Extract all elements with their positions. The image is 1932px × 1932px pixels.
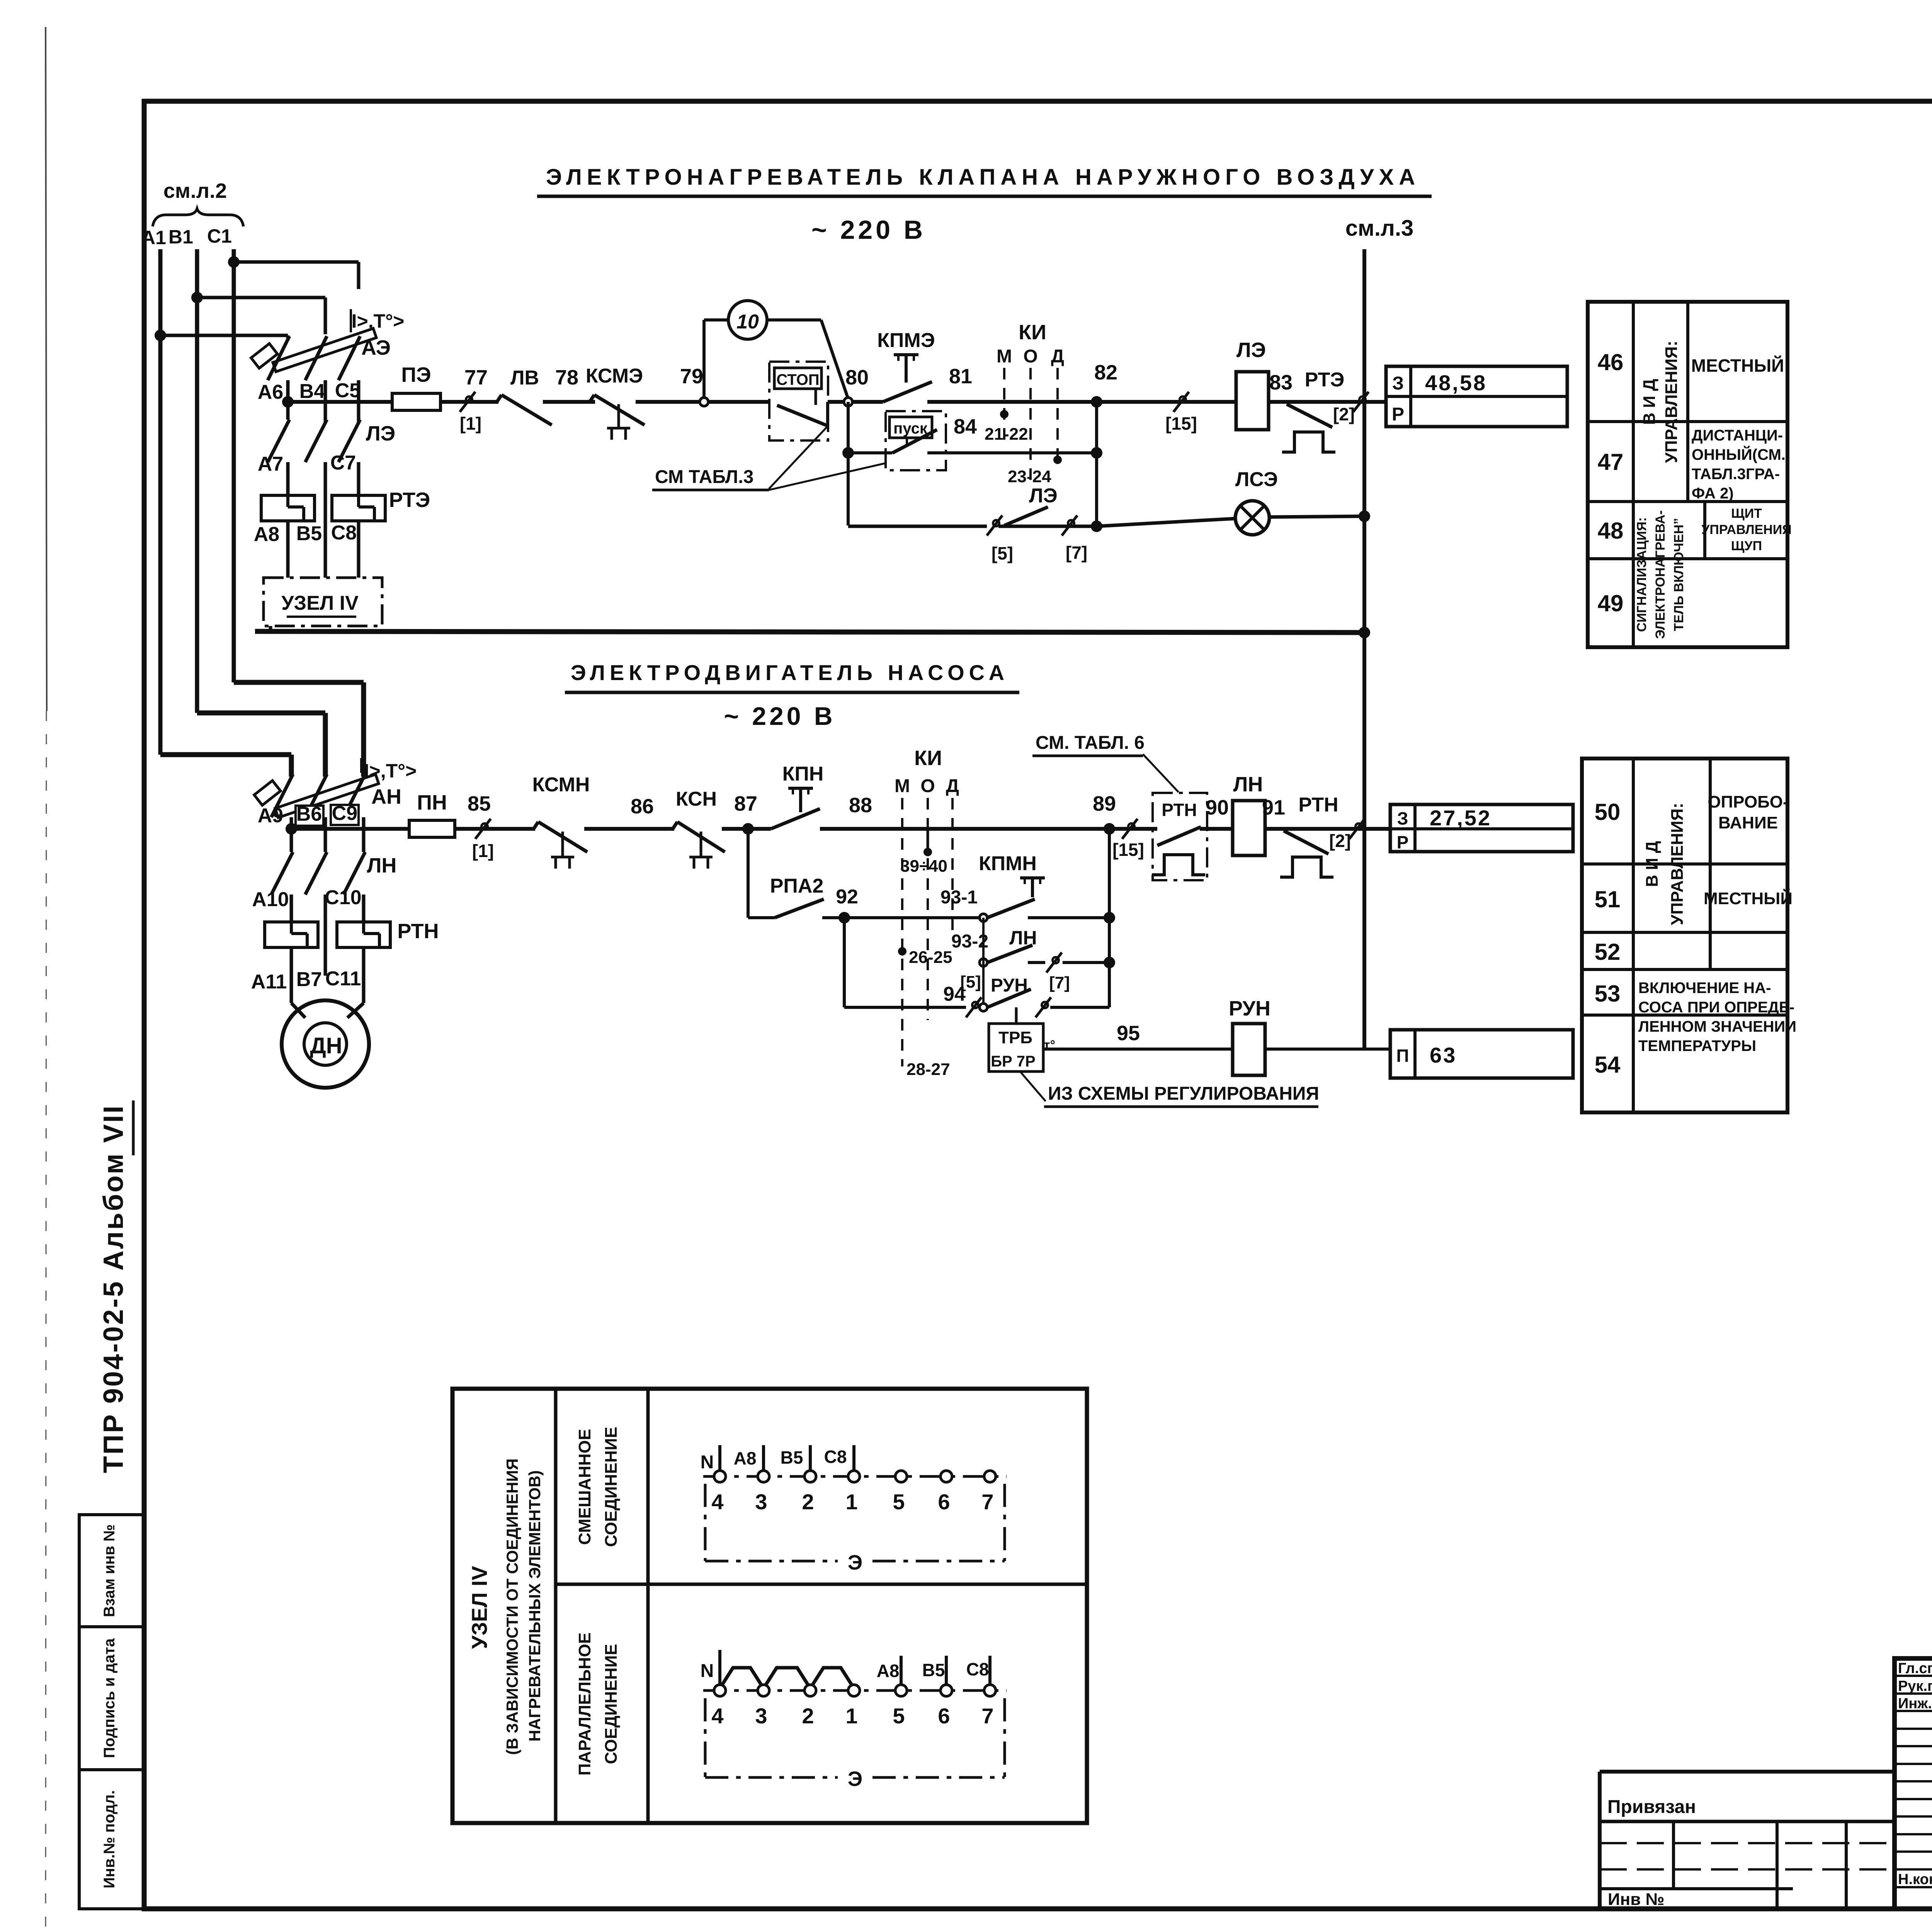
contact КПН (button) (771, 763, 823, 829)
svg-text:ЛЕННОМ ЗНАЧЕНИИ: ЛЕННОМ ЗНАЧЕНИИ (1638, 1018, 1796, 1035)
svg-text:А11: А11 (251, 971, 287, 993)
svg-text:~ 220 В: ~ 220 В (724, 702, 836, 730)
label см.л.3 (1345, 216, 1414, 241)
svg-text:26-25: 26-25 (909, 948, 952, 967)
svg-text:С8: С8 (966, 1659, 989, 1679)
svg-text:ЭЛЕКТРОНАГРЕВА-: ЭЛЕКТРОНАГРЕВА- (1653, 510, 1668, 639)
svg-text:[7]: [7] (1049, 973, 1070, 992)
circuit breaker АЭ (3-pole automatic) (251, 309, 405, 380)
terminal [5] (987, 515, 1013, 563)
svg-text:С1: С1 (207, 225, 232, 247)
svg-text:49: 49 (1598, 590, 1624, 616)
svg-text:С10: С10 (325, 886, 361, 909)
svg-text:47: 47 (1598, 449, 1624, 475)
svg-text:3: 3 (755, 1490, 767, 1514)
contact РУН aux branch 94 (844, 973, 1109, 1024)
svg-text:46: 46 (1598, 349, 1624, 375)
title: ЭЛЕКТРОНАГРЕВАТЕЛЬ КЛАПАНА НАРУЖНОГО ВОЗДУХА (537, 165, 1432, 196)
margin cell: Подпись и дата (79, 1627, 144, 1770)
svg-text:Р: Р (1392, 404, 1404, 425)
svg-text:5: 5 (893, 1490, 905, 1514)
thermal contact РТЭ on main line (1282, 369, 1344, 452)
terminal [7] (1062, 515, 1087, 563)
svg-text:ЛВ: ЛВ (510, 367, 539, 389)
svg-text:З: З (1397, 808, 1408, 828)
label см.л.2 with brace (153, 179, 243, 226)
svg-text:10: 10 (736, 311, 759, 333)
margin text ТПР 904-02-5 Альбом VII (98, 1100, 133, 1473)
contact ЛЭ aux (1004, 485, 1058, 526)
junction В1-heater (191, 292, 203, 303)
table rows 46-49 (1588, 302, 1792, 647)
breaker pole stubs (288, 380, 359, 422)
attachment box Привязан (1600, 1772, 1895, 1909)
switch КИ motor labels (895, 747, 959, 796)
thermal element РТН phase С (337, 920, 439, 1003)
svg-text:см.л.3: см.л.3 (1345, 216, 1414, 241)
wire labels А7 С7 (258, 452, 356, 475)
svg-text:21-22: 21-22 (985, 425, 1028, 444)
svg-text:79: 79 (680, 365, 703, 388)
svg-text:ТРБ: ТРБ (998, 1028, 1032, 1047)
svg-text:Д: Д (946, 776, 959, 796)
svg-text:ЛСЭ: ЛСЭ (1235, 468, 1278, 491)
terminal [15] motor (1112, 819, 1144, 860)
svg-text:А10: А10 (252, 888, 289, 911)
svg-text:БР 7Р: БР 7Р (991, 1053, 1035, 1070)
junction А6 / main line (282, 396, 294, 408)
svg-text:КПН: КПН (782, 763, 824, 785)
svg-text:Р: Р (1397, 832, 1409, 852)
svg-text:48: 48 (1598, 518, 1624, 544)
table rows 50-54 (1582, 759, 1796, 1112)
junction С1-heater (228, 256, 240, 268)
signal lamp ЛСЭ (1235, 468, 1278, 535)
junction А9 / motor line (286, 823, 297, 835)
svg-text:ЛЭ: ЛЭ (1029, 485, 1057, 507)
svg-text:А7: А7 (258, 453, 283, 475)
dashed line О (1029, 368, 1032, 486)
svg-text:81: 81 (949, 365, 972, 388)
svg-text:РПА2: РПА2 (770, 875, 824, 897)
svg-text:В5: В5 (781, 1447, 803, 1468)
dashed line О motor (927, 798, 929, 1020)
svg-text:Инв.№ подл.: Инв.№ подл. (101, 1790, 118, 1888)
wire С1 step to motor breaker (234, 682, 364, 777)
svg-text:Н.контр.: Н.контр. (1898, 1871, 1932, 1888)
svg-text:(В ЗАВИСИМОСТИ ОТ СОЕДИНЕНИЯ: (В ЗАВИСИМОСТИ ОТ СОЕДИНЕНИЯ (503, 1458, 521, 1755)
svg-text:52: 52 (1595, 939, 1621, 965)
svg-text:63: 63 (1430, 1043, 1457, 1067)
svg-text:В6: В6 (296, 803, 322, 825)
scan edge line (46, 27, 47, 1928)
svg-text:28-27: 28-27 (906, 1060, 950, 1079)
svg-text:В4: В4 (299, 380, 325, 403)
svg-text:[5]: [5] (992, 543, 1013, 563)
svg-text:7: 7 (981, 1490, 993, 1514)
svg-text:КИ: КИ (914, 747, 942, 770)
contact пуск blade (848, 415, 1097, 453)
svg-text:94: 94 (943, 983, 966, 1005)
wire neutral rail (255, 626, 1364, 633)
svg-text:ЛН: ЛН (367, 854, 397, 877)
relay coil ЛЭ (1236, 338, 1269, 430)
svg-text:А9: А9 (258, 804, 283, 827)
svg-text:ПАРАЛЛЕЛЬНОЕ: ПАРАЛЛЕЛЬНОЕ (575, 1633, 594, 1776)
fuse ПЭ (392, 363, 440, 410)
svg-text:ЛН: ЛН (1009, 927, 1037, 949)
note СМ ТАБЛ.3 with leaders (652, 427, 887, 490)
svg-text:КСМЭ: КСМЭ (586, 365, 643, 387)
svg-text:Инж.: Инж. (1898, 1696, 1932, 1712)
svg-text:СОЕДИНЕНИЕ: СОЕДИНЕНИЕ (602, 1427, 621, 1547)
svg-text:пуск: пуск (893, 420, 928, 437)
dashed line М (1003, 368, 1005, 448)
svg-text:[15]: [15] (1165, 413, 1197, 434)
КИ contact 28-27 (906, 1060, 950, 1079)
svg-text:89: 89 (1093, 792, 1116, 815)
svg-text:ЛЭ: ЛЭ (1236, 338, 1266, 362)
svg-text:39÷40: 39÷40 (900, 857, 947, 876)
svg-text:А8: А8 (734, 1448, 757, 1468)
svg-text:В И Д: В И Д (1640, 379, 1659, 425)
svg-text:З: З (1392, 373, 1404, 394)
terminal [15] heater (1165, 392, 1197, 434)
svg-text:7: 7 (981, 1704, 993, 1728)
svg-text:53: 53 (1595, 981, 1621, 1007)
svg-text:82: 82 (1094, 361, 1117, 384)
note ИЗ СХЕМЫ РЕГУЛИРОВАНИЯ (1020, 1071, 1319, 1107)
svg-text:М: М (997, 346, 1012, 367)
thermal element РТЭ phase С (332, 488, 430, 578)
wire labels А11 В7 С11 (251, 968, 361, 993)
svg-text:А8: А8 (877, 1661, 900, 1681)
svg-text:О: О (920, 776, 935, 796)
svg-text:4: 4 (711, 1490, 723, 1514)
wire labels А10 С10 (252, 886, 361, 911)
svg-text:6: 6 (938, 1704, 950, 1728)
svg-text:ПЭ: ПЭ (401, 363, 431, 386)
svg-text:М: М (895, 776, 910, 796)
svg-text:АЭ: АЭ (361, 336, 391, 359)
svg-text:РТЭ: РТЭ (389, 488, 430, 512)
contact РПА2 branch (748, 875, 983, 918)
temperature relay ТРБ (989, 1022, 1233, 1071)
svg-text:ТЕЛЬ ВКЛЮЧЕН”: ТЕЛЬ ВКЛЮЧЕН” (1672, 518, 1686, 631)
svg-text:КСН: КСН (676, 788, 717, 810)
svg-text:ОПРОБО-: ОПРОБО- (1708, 793, 1788, 811)
junction 92 (836, 886, 858, 923)
junction А1-heater (155, 330, 166, 341)
label 88 (849, 794, 872, 817)
node label В1 (168, 226, 193, 248)
svg-text:54: 54 (1595, 1052, 1621, 1078)
svg-text:2: 2 (802, 1490, 814, 1514)
contact КСМЭ (586, 365, 645, 440)
relay coil ЛН (1233, 773, 1265, 855)
wire balloon to node 80 (767, 320, 848, 399)
relay coil РУН (1229, 997, 1390, 1075)
terminal 85 [1] (468, 792, 494, 861)
wire С1 to breaker АЭ (234, 262, 359, 289)
terminal 77 [1] (460, 366, 488, 434)
svg-text:90: 90 (1206, 796, 1229, 819)
svg-text:СМЕШАННОЕ: СМЕШАННОЕ (575, 1429, 594, 1545)
svg-text:5: 5 (893, 1704, 905, 1728)
breaker АН pole stubs (291, 817, 364, 852)
wire node80 down-branch (842, 402, 854, 526)
svg-text:78: 78 (555, 366, 578, 389)
svg-text:27,52: 27,52 (1430, 806, 1492, 830)
wire motor main line (291, 827, 1390, 831)
label ~220В heater (811, 215, 926, 245)
svg-text:С11: С11 (325, 968, 361, 990)
dashed line Д (1056, 368, 1059, 458)
svg-text:88: 88 (849, 794, 872, 817)
svg-text:ТЕМПЕРАТУРЫ: ТЕМПЕРАТУРЫ (1638, 1037, 1756, 1054)
КИ contact 26-25 (898, 947, 952, 967)
svg-text:[1]: [1] (472, 841, 494, 861)
svg-text:[1]: [1] (460, 413, 481, 434)
КИ contact 21-22 (985, 410, 1028, 444)
svg-text:93-1: 93-1 (940, 887, 978, 908)
svg-text:87: 87 (734, 792, 757, 815)
contact КПМН (button) (940, 852, 1115, 923)
label 90 (1206, 796, 1229, 819)
wire balloon number 10 (728, 301, 767, 339)
svg-text:Привязан: Привязан (1607, 1797, 1696, 1817)
wire junction92 down to РУН branch (843, 918, 846, 1007)
svg-text:РУН: РУН (1229, 997, 1270, 1020)
svg-text:ВКЛЮЧЕНИЕ НА-: ВКЛЮЧЕНИЕ НА- (1638, 980, 1771, 997)
svg-text:1: 1 (845, 1704, 857, 1728)
wire balloon riser (704, 320, 728, 398)
svg-text:УПРАВЛЕНИЯ: УПРАВЛЕНИЯ (1701, 522, 1792, 537)
table УЗЕЛ IV frame (452, 1389, 1087, 1823)
contact ЛН aux 93-2 (951, 918, 1115, 1007)
margin cell: Инв.№ подл. (79, 1770, 144, 1909)
svg-text:С8: С8 (331, 522, 357, 544)
svg-text:РТН: РТН (397, 920, 439, 943)
svg-text:УПРАВЛЕНИЯ:: УПРАВЛЕНИЯ: (1668, 803, 1687, 925)
svg-text:ПН: ПН (417, 791, 447, 814)
svg-text:91: 91 (1262, 796, 1285, 819)
svg-text:КИ: КИ (1019, 321, 1046, 344)
svg-text:СИГНАЛИЗАЦИЯ:: СИГНАЛИЗАЦИЯ: (1634, 517, 1649, 632)
svg-text:N: N (701, 1661, 714, 1681)
svg-text:НАГРЕВАТЕЛЬНЫХ ЭЛЕМЕНТОВ): НАГРЕВАТЕЛЬНЫХ ЭЛЕМЕНТОВ) (526, 1470, 544, 1742)
label 86 (631, 795, 654, 818)
svg-text:N: N (701, 1452, 714, 1473)
dashed line Д motor (951, 798, 954, 931)
svg-text:~ 220 В: ~ 220 В (811, 215, 926, 245)
node label А1 (141, 227, 166, 248)
svg-text:[2]: [2] (1333, 404, 1355, 424)
svg-text:80: 80 (845, 366, 869, 389)
КИ contact 23-24 (1008, 456, 1062, 486)
title block frame (1895, 1658, 1932, 1909)
svg-text:[7]: [7] (1066, 543, 1087, 563)
svg-text:Взам инв №: Взам инв № (101, 1524, 118, 1617)
terminal [2] motor (1329, 819, 1365, 851)
svg-text:СМ ТАБЛ.3: СМ ТАБЛ.3 (655, 467, 753, 487)
wire labels А9 В6 С9 (258, 802, 359, 827)
svg-text:С7: С7 (330, 452, 356, 474)
reference box З 48,58 / Р (1386, 366, 1567, 427)
relay РТН (dash-dot box with contact) (1152, 793, 1207, 880)
svg-text:ИЗ СХЕМЫ РЕГУЛИРОВАНИЯ: ИЗ СХЕМЫ РЕГУЛИРОВАНИЯ (1048, 1083, 1319, 1104)
wire lamp branch (848, 516, 1364, 532)
svg-text:Д: Д (1051, 346, 1064, 367)
node 87 (734, 792, 757, 835)
note СМ.ТАБЛ.6 with leader (1032, 733, 1179, 792)
svg-text:РУН: РУН (991, 975, 1028, 996)
svg-text:РТН: РТН (1162, 800, 1197, 820)
label 78 (555, 366, 578, 389)
svg-text:Подпись и дата: Подпись и дата (101, 1638, 118, 1758)
title: ЭЛЕКТРОДВИГАТЕЛЬ НАСОСА (565, 660, 1019, 692)
margin cell: Взам инв № (79, 1515, 144, 1627)
label 81 (949, 365, 972, 388)
wire node89 down-branch (1108, 829, 1111, 1007)
svg-text:ФА 2): ФА 2) (1692, 485, 1734, 502)
node 79 (680, 365, 708, 406)
wire: phase С1 bus (232, 249, 236, 682)
label ~220В motor (724, 702, 836, 730)
wire А1 to breaker АЭ (160, 335, 288, 338)
svg-text:86: 86 (631, 795, 654, 818)
svg-text:ЩУП: ЩУП (1731, 539, 1762, 553)
svg-text:77: 77 (464, 366, 488, 389)
svg-text:СОСА ПРИ ОПРЕДЕ-: СОСА ПРИ ОПРЕДЕ- (1638, 999, 1794, 1016)
diagram parallel connection (701, 1650, 1007, 1791)
svg-text:СМ. ТАБЛ. 6: СМ. ТАБЛ. 6 (1036, 733, 1145, 753)
wire В1 step to motor breaker (197, 713, 325, 777)
svg-text:83: 83 (1269, 371, 1293, 394)
svg-text:2: 2 (802, 1704, 814, 1728)
wire labels А8 В5 С8 (254, 522, 357, 546)
svg-text:В1: В1 (168, 226, 193, 248)
wire А1 step to motor breaker (160, 755, 291, 777)
svg-text:С9: С9 (332, 802, 357, 825)
svg-text:ТПР 904-02-5 Альбом VII: ТПР 904-02-5 Альбом VII (98, 1104, 129, 1473)
svg-text:УПРАВЛЕНИЯ:: УПРАВЛЕНИЯ: (1662, 341, 1681, 463)
node 82 (1091, 361, 1117, 408)
node label С1 (207, 225, 232, 247)
svg-text:В7: В7 (296, 968, 322, 991)
wire node87 down-branch (747, 829, 750, 918)
svg-text:КПМЭ: КПМЭ (877, 329, 935, 352)
contactor ЛЭ main poles (268, 402, 395, 578)
fuse ПН (409, 791, 455, 837)
svg-text:92: 92 (836, 886, 858, 908)
svg-text:[15]: [15] (1112, 840, 1144, 860)
reference box З 27,52 / Р (1390, 804, 1573, 852)
svg-text:ЩИТ: ЩИТ (1731, 506, 1762, 521)
contact ЛВ (497, 367, 552, 425)
svg-text:А8: А8 (254, 523, 279, 546)
svg-text:6: 6 (938, 1490, 950, 1514)
svg-text:УЗЕЛ IV: УЗЕЛ IV (281, 592, 359, 614)
switch КИ column labels М О Д (997, 321, 1064, 367)
svg-text:[2]: [2] (1329, 831, 1351, 851)
wire vertical bus см.л.3 (1359, 249, 1370, 1049)
svg-text:ОННЫЙ(СМ.: ОННЫЙ(СМ. (1692, 446, 1786, 463)
КИ contact 39-40 (900, 829, 947, 876)
svg-text:Э: Э (848, 1551, 862, 1574)
thermal element РТЭ phase А (261, 495, 315, 578)
svg-text:УЗЕЛ IV: УЗЕЛ IV (467, 1566, 492, 1649)
contact КПМЭ (button) (877, 329, 935, 402)
svg-text:51: 51 (1595, 886, 1621, 912)
wire labels А6 В4 С5 (258, 379, 361, 403)
title block signatures (1898, 1660, 1932, 1890)
contact КСН (673, 788, 725, 869)
terminal [2] heater (1333, 392, 1369, 424)
wire heater main line (288, 400, 1386, 404)
svg-text:РТН: РТН (1298, 794, 1338, 816)
svg-text:СТОП: СТОП (776, 371, 819, 388)
svg-text:КСМН: КСМН (532, 774, 590, 796)
svg-text:ВАНИЕ: ВАНИЕ (1718, 813, 1778, 832)
button СТОП (dash-dot box) (769, 362, 828, 440)
svg-text:Э: Э (848, 1767, 862, 1791)
svg-text:I>,Т°>: I>,Т°> (352, 310, 405, 332)
thermal element РТН phase А (265, 922, 318, 1003)
reference box П 63 (1390, 1030, 1573, 1078)
node 89 (1093, 792, 1116, 835)
svg-text:С5: С5 (335, 379, 361, 402)
svg-text:ДН: ДН (310, 1033, 342, 1058)
svg-text:95: 95 (1117, 1022, 1140, 1045)
svg-text:С8: С8 (824, 1447, 847, 1467)
svg-text:В5: В5 (922, 1660, 945, 1680)
dashed line М motor (901, 798, 903, 1066)
svg-text:П: П (1396, 1046, 1409, 1066)
svg-text:48,58: 48,58 (1425, 371, 1487, 395)
svg-text:4: 4 (711, 1704, 723, 1728)
svg-text:23-24: 23-24 (1008, 467, 1051, 486)
contact КСМН (532, 774, 590, 869)
svg-text:см.л.2: см.л.2 (163, 179, 227, 202)
svg-text:84: 84 (954, 415, 977, 438)
block УЗЕЛ IV (264, 578, 382, 626)
diagram mixed connection (701, 1445, 1007, 1574)
svg-text:ДИСТАНЦИ-: ДИСТАНЦИ- (1692, 427, 1783, 444)
node 80 (844, 366, 869, 406)
svg-text:О: О (1023, 346, 1037, 367)
wire: phase А1 bus (158, 249, 163, 755)
svg-text:I>,Т°>: I>,Т°> (364, 760, 417, 782)
svg-text:ТАБЛ.3ГРА-: ТАБЛ.3ГРА- (1692, 466, 1780, 483)
svg-text:В И Д: В И Д (1643, 841, 1662, 887)
svg-text:ЭЛЕКТРОНАГРЕВАТЕЛЬ КЛАПАНА Н: ЭЛЕКТРОНАГРЕВАТЕЛЬ КЛАПАНА НАРУЖНОГО ВОЗ… (546, 165, 1420, 190)
svg-text:1: 1 (845, 1490, 857, 1514)
svg-text:МЕСТНЫЙ: МЕСТНЫЙ (1691, 355, 1784, 376)
label 91 and thermal РТН (1262, 794, 1338, 877)
svg-text:ЭЛЕКТРОДВИГАТЕЛЬ НАСОСА: ЭЛЕКТРОДВИГАТЕЛЬ НАСОСА (571, 660, 1009, 685)
svg-text:Инв №: Инв № (1608, 1890, 1665, 1909)
svg-text:МЕСТНЫЙ: МЕСТНЫЙ (1704, 888, 1793, 908)
svg-text:АН: АН (371, 785, 401, 808)
svg-text:85: 85 (468, 792, 491, 815)
contactor ЛН poles (271, 829, 396, 976)
button ПУСК (dash-dot box) (886, 411, 946, 470)
label 83 (1269, 371, 1293, 394)
svg-text:ЛН: ЛН (1233, 773, 1263, 796)
svg-text:А1: А1 (141, 227, 166, 248)
svg-text:СОЕДИНЕНИЕ: СОЕДИНЕНИЕ (602, 1644, 621, 1764)
